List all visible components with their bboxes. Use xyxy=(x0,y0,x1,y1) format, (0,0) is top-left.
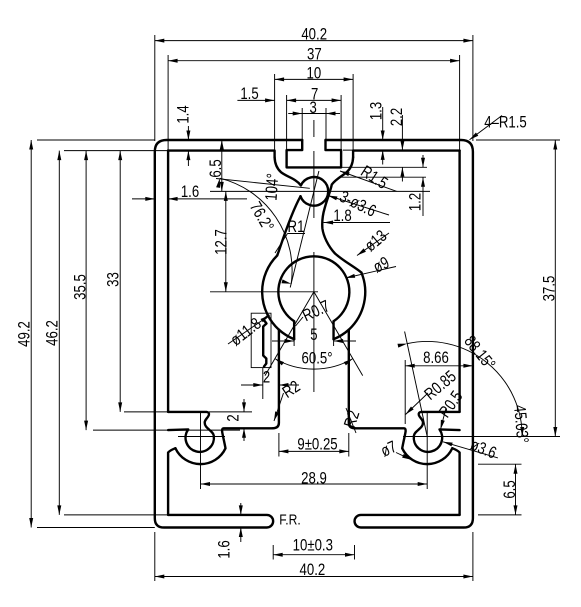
keyhole screw-port bore (3.6) with ledge xyxy=(414,412,460,452)
svg-text:37.5: 37.5 xyxy=(539,276,558,302)
svg-text:10±0.3: 10±0.3 xyxy=(293,535,333,554)
svg-text:4–R1.5: 4–R1.5 xyxy=(484,112,527,131)
dim 1.6 wall xyxy=(132,198,155,200)
wire: inner wall chamber xyxy=(167,151,169,412)
angle dim 60.5 with legs xyxy=(265,292,314,376)
dim 1.6 shelf xyxy=(240,503,242,515)
T-slot cavity half xyxy=(314,140,341,167)
svg-text:1.5: 1.5 xyxy=(240,84,258,103)
wire: left hanger S-curve xyxy=(275,157,301,185)
svg-text:40.2: 40.2 xyxy=(301,25,327,44)
dim 2.2 xyxy=(401,115,403,150)
svg-text:9±0.25: 9±0.25 xyxy=(297,434,337,453)
wire: outer wall + bottom + shelf (half) xyxy=(155,140,302,528)
svg-text:6.5: 6.5 xyxy=(500,480,519,498)
svg-text:37: 37 xyxy=(307,45,322,64)
label R1.5 xyxy=(340,171,397,191)
svg-text:28.9: 28.9 xyxy=(301,468,327,487)
dim 6.5 xyxy=(221,140,223,191)
dim 40.2 bottom xyxy=(154,532,156,581)
keyhole outer d7 arc + web lip xyxy=(175,428,272,464)
dim 2 (ledge step) xyxy=(209,411,252,413)
centerline: right keyhole cross xyxy=(403,436,560,438)
svg-text:8.66: 8.66 xyxy=(423,348,449,367)
dim 37 xyxy=(167,55,169,150)
label d13 xyxy=(357,233,389,256)
label 3-d3.6 xyxy=(328,196,389,216)
dim 37.5 xyxy=(476,139,560,141)
centerline: left keyhole cross xyxy=(178,436,225,438)
svg-text:104°: 104° xyxy=(262,173,283,202)
svg-text:2.2: 2.2 xyxy=(387,108,406,126)
angle dims 104 / 76.2 xyxy=(290,171,319,288)
svg-text:3: 3 xyxy=(309,98,316,117)
dim 49.2 xyxy=(37,139,155,141)
dim 5 opening xyxy=(293,327,295,346)
label R2 left xyxy=(274,393,284,421)
wire: inner top wall with step xyxy=(168,151,275,158)
dim 12.7 xyxy=(225,191,227,291)
svg-text:1.3: 1.3 xyxy=(366,102,385,120)
dim 3 xyxy=(301,108,303,139)
hole 3-d3.6 (top) xyxy=(301,177,329,206)
label d3.6 keyhole xyxy=(443,442,498,458)
svg-text:49.2: 49.2 xyxy=(14,321,33,347)
label d7 xyxy=(396,453,412,460)
keyhole outer d7 arc + web lip xyxy=(355,428,452,464)
wire: slit exit wall xyxy=(277,196,300,255)
label 4-R1.5 corner radii xyxy=(470,116,503,140)
svg-text:1.2: 1.2 xyxy=(405,193,424,211)
wire: web to column R2 fillet xyxy=(349,330,355,429)
dim 1.2 xyxy=(422,155,424,167)
svg-text:60.5°: 60.5° xyxy=(302,348,333,367)
svg-text:46.2: 46.2 xyxy=(42,320,61,346)
angle dims 88.15 / 45.03 arc xyxy=(405,332,428,437)
dim 1.5 xyxy=(237,99,274,101)
dim 40.2 top xyxy=(154,35,156,141)
dim 1.4 xyxy=(187,126,189,140)
keyhole screw-port bore (3.6) with ledge xyxy=(168,412,214,452)
svg-text:40.2: 40.2 xyxy=(300,560,326,579)
svg-text:2: 2 xyxy=(223,414,242,421)
svg-text:35.5: 35.5 xyxy=(70,274,89,300)
svg-text:F.R.: F.R. xyxy=(279,513,301,529)
detail box d11.8 serration xyxy=(251,313,271,367)
wire: right hanger S-curve + neck xyxy=(322,157,361,272)
dim 6.5 bottom right xyxy=(478,463,522,465)
centerline: vertical top xyxy=(313,120,315,137)
wire: outer wall + bottom + shelf (half) xyxy=(326,140,473,528)
svg-text:1.8: 1.8 xyxy=(333,206,351,225)
svg-text:1.4: 1.4 xyxy=(173,105,192,123)
dim 35.5 xyxy=(93,429,240,431)
svg-text:10: 10 xyxy=(307,64,322,83)
wire: boss lower-right arc xyxy=(334,330,349,340)
wire: inner wall below keyhole hook xyxy=(452,448,459,515)
label d9 xyxy=(346,267,397,279)
boss outer d13 right arc xyxy=(349,273,365,330)
dim 7 xyxy=(286,95,288,152)
dim 9+-0.25 column xyxy=(278,433,280,457)
svg-text:45.03°: 45.03° xyxy=(510,404,532,444)
svg-text:33: 33 xyxy=(103,272,122,287)
dim 33 xyxy=(124,411,168,413)
wire: boss opening wall left xyxy=(293,321,295,339)
wire: inner top wall with step xyxy=(353,151,460,158)
wire: boss opening wall right xyxy=(332,321,334,339)
wire: inner wall chamber xyxy=(458,151,460,412)
dim 46.2 xyxy=(64,150,168,152)
svg-text:6.5: 6.5 xyxy=(206,159,225,177)
svg-text:12.7: 12.7 xyxy=(211,229,230,255)
dim 1.8 xyxy=(324,222,390,224)
svg-text:5: 5 xyxy=(310,325,317,344)
dim 2 (serration) xyxy=(241,384,263,386)
boss outer d13 left arc xyxy=(262,256,279,330)
dim 10 xyxy=(274,74,276,156)
svg-text:2: 2 xyxy=(263,367,270,386)
svg-text:1.6: 1.6 xyxy=(214,540,233,558)
dim 10+-0.3 slot xyxy=(272,545,274,560)
dim 28.9 xyxy=(201,483,428,485)
svg-text:1.6: 1.6 xyxy=(181,182,199,201)
wire: web to column R2 fillet xyxy=(273,330,279,429)
dim 8.66 xyxy=(404,360,406,424)
wire: inner wall below keyhole hook xyxy=(168,448,175,515)
centerline: hole horizontal xyxy=(210,190,430,192)
dim 1.3 xyxy=(382,107,384,140)
wire: boss lower-left arc xyxy=(279,330,294,340)
svg-text:R1: R1 xyxy=(288,217,305,236)
T-slot cavity half xyxy=(287,140,314,167)
boss bore d9 xyxy=(278,256,349,321)
